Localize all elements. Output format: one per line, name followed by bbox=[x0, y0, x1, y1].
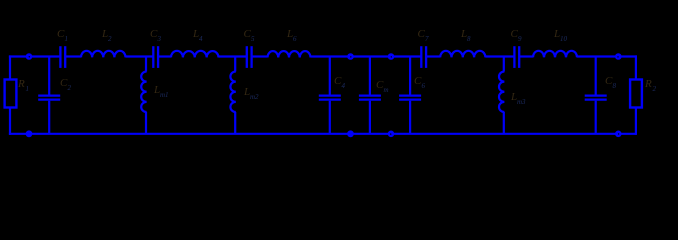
node B- (open dot on bottom wire) bbox=[388, 131, 395, 138]
wire right edge vertical (top) bbox=[635, 55, 637, 79]
wire L10 to right edge bbox=[577, 55, 637, 57]
wire bottom rail bbox=[9, 133, 636, 135]
label C6 (shunt capacitor at node B) bbox=[414, 75, 426, 90]
node A- (dot on bottom wire) bbox=[347, 130, 354, 137]
svg-text:10: 10 bbox=[560, 35, 568, 43]
resistor R1 bbox=[5, 80, 17, 108]
shunt capacitor 1 plate top bbox=[38, 94, 60, 96]
wire C9 to L10 bbox=[519, 55, 533, 57]
label L2 (above first series inductor) bbox=[101, 28, 112, 43]
svg-text:7: 7 bbox=[425, 35, 429, 43]
series capacitor C1 plate right bbox=[64, 46, 66, 68]
wire L4 to node bbox=[219, 55, 247, 57]
shunt capacitor branch 5 lead upper bbox=[369, 57, 371, 95]
label Cm (middle shunt capacitor) bbox=[376, 79, 389, 94]
svg-text:1: 1 bbox=[26, 85, 30, 93]
label C3 (above second series capacitor) bbox=[150, 28, 162, 43]
svg-text:4: 4 bbox=[199, 35, 203, 43]
inductor L6 (4 bumps) bbox=[268, 51, 311, 57]
shunt capacitor branch 5 lead lower bbox=[369, 101, 371, 134]
inductor L2 (4 bumps) bbox=[81, 51, 126, 58]
label C4 (shunt capacitor at node A) bbox=[334, 75, 346, 90]
series capacitor C5 plate left bbox=[246, 46, 248, 68]
shunt inductor Lm3 (4 bumps, vertical) bbox=[499, 72, 504, 113]
wire C5 to L6 bbox=[252, 55, 268, 57]
wire left edge vertical (top) bbox=[9, 55, 11, 79]
shunt capacitor branch 1 lead lower bbox=[48, 101, 50, 134]
shunt capacitor 6 plate top bbox=[399, 94, 421, 96]
label R1 (left resistor) bbox=[17, 78, 29, 93]
series capacitor C7 plate right bbox=[425, 46, 427, 68]
svg-text:6: 6 bbox=[293, 35, 297, 43]
svg-text:5: 5 bbox=[251, 35, 255, 43]
inductor L8 (4 bumps) bbox=[440, 51, 485, 58]
shunt capacitor 6 plate bottom bbox=[399, 98, 421, 100]
resistor R2 bbox=[630, 80, 642, 108]
shunt capacitor 8 plate bottom bbox=[585, 98, 607, 100]
shunt inductor Lm1 (4 bumps, vertical) bbox=[141, 72, 146, 113]
label L10 (above fifth series inductor) bbox=[553, 28, 568, 43]
shunt capacitor branch 1 lead upper bbox=[48, 57, 50, 95]
label C9 (above fifth series capacitor) bbox=[511, 28, 523, 43]
svg-text:3: 3 bbox=[157, 35, 162, 43]
node in+ (open dot on top wire) bbox=[26, 53, 33, 60]
svg-text:8: 8 bbox=[613, 82, 617, 90]
wire right edge vertical (bottom) bbox=[635, 108, 637, 135]
wire C1 to L2 bbox=[65, 55, 81, 57]
shunt capacitor Cm plate bottom bbox=[359, 98, 381, 100]
svg-text:m1: m1 bbox=[160, 91, 169, 99]
series capacitor C1 plate left bbox=[59, 46, 61, 68]
svg-text:R: R bbox=[644, 78, 652, 90]
shunt inductor Lm2 (4 bumps, vertical) bbox=[230, 72, 235, 113]
svg-text:1: 1 bbox=[65, 35, 69, 43]
label R2 (right resistor) bbox=[644, 78, 657, 93]
shunt capacitor branch 6 lead lower bbox=[409, 101, 411, 134]
shunt capacitor 8 plate top bbox=[585, 94, 607, 96]
svg-text:m2: m2 bbox=[250, 93, 259, 101]
svg-text:2: 2 bbox=[68, 84, 72, 92]
svg-text:R: R bbox=[17, 78, 25, 90]
shunt capacitor 4 plate bottom bbox=[319, 98, 341, 100]
shunt inductor branch 3 lead lower bbox=[234, 112, 236, 134]
shunt inductor branch 2 lead upper bbox=[145, 57, 147, 72]
series capacitor C9 plate right bbox=[518, 46, 520, 68]
node in- (dot on bottom wire) bbox=[26, 130, 33, 137]
label C7 (above fourth series capacitor) bbox=[418, 28, 430, 43]
shunt capacitor branch 8 lead lower bbox=[595, 101, 597, 134]
wire top-left segment (input to first series cap) bbox=[9, 55, 61, 57]
node A+ (open dot on top wire) bbox=[347, 53, 354, 60]
series capacitor C3 plate right bbox=[157, 46, 159, 68]
inductor L10 (4 bumps) bbox=[533, 51, 577, 58]
svg-text:8: 8 bbox=[467, 35, 471, 43]
wire left edge vertical (bottom) bbox=[9, 108, 11, 135]
series capacitor C5 plate right bbox=[250, 46, 252, 68]
label L6 (above third series inductor) bbox=[286, 28, 297, 43]
shunt capacitor branch 6 lead upper bbox=[409, 57, 411, 95]
wire C7 to L8 bbox=[426, 55, 440, 57]
series capacitor C7 plate left bbox=[420, 46, 422, 68]
shunt inductor branch 7 lead upper bbox=[503, 57, 505, 72]
node out+ (open dot on top wire) bbox=[615, 53, 622, 60]
shunt capacitor 4 plate top bbox=[319, 94, 341, 96]
shunt capacitor Cm plate top bbox=[359, 94, 381, 96]
label C5 (above third series capacitor) bbox=[244, 28, 256, 43]
svg-text:2: 2 bbox=[653, 85, 657, 93]
shunt capacitor branch 8 lead upper bbox=[595, 57, 597, 95]
series capacitor C3 plate left bbox=[152, 46, 154, 68]
shunt inductor branch 2 lead lower bbox=[145, 112, 147, 134]
wire L8 to node bbox=[485, 55, 514, 57]
svg-text:6: 6 bbox=[422, 82, 426, 90]
node B+ (open dot on top wire) bbox=[388, 53, 395, 60]
wire C3 to L4 bbox=[158, 55, 171, 57]
label C8 (last shunt capacitor) bbox=[605, 75, 617, 90]
shunt capacitor branch 4 lead lower bbox=[329, 101, 331, 134]
inductor L4 (4 bumps) bbox=[171, 51, 219, 58]
label Lm1 (first shunt inductor) bbox=[153, 84, 169, 99]
label L8 (above fourth series inductor) bbox=[460, 28, 471, 43]
label Lm3 (third shunt inductor) bbox=[510, 91, 526, 106]
label L4 (above second series inductor) bbox=[192, 28, 203, 43]
label Lm2 (second shunt inductor) bbox=[243, 86, 259, 101]
wire L6 across middle nodes bbox=[311, 55, 422, 57]
svg-text:4: 4 bbox=[342, 82, 346, 90]
label C2 (first shunt capacitor) bbox=[60, 77, 72, 92]
node out- (dot on bottom wire) bbox=[615, 131, 622, 138]
svg-text:2: 2 bbox=[108, 35, 112, 43]
svg-text:m3: m3 bbox=[517, 98, 526, 106]
shunt inductor branch 3 lead upper bbox=[234, 57, 236, 72]
svg-text:m: m bbox=[384, 86, 389, 94]
series capacitor C9 plate left bbox=[513, 46, 515, 68]
wire L2 to node bbox=[126, 55, 154, 57]
svg-text:9: 9 bbox=[518, 35, 522, 43]
shunt capacitor 1 plate bottom bbox=[38, 98, 60, 100]
shunt inductor branch 7 lead lower bbox=[503, 112, 505, 134]
shunt capacitor branch 4 lead upper bbox=[329, 57, 331, 95]
label C1 (above first series capacitor) bbox=[57, 28, 68, 43]
